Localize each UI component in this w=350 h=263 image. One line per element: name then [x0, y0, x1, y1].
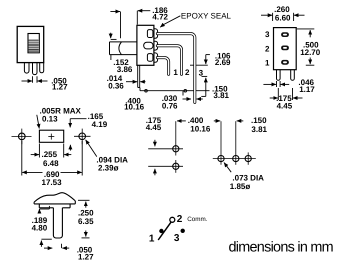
front view slider knob (striped): [29, 39, 39, 52]
pcb hole B1: [218, 156, 224, 162]
svg-text:1.27: 1.27: [78, 253, 94, 262]
mounting hole left: [12, 129, 32, 145]
dimension .250/6.35: [78, 200, 90, 238]
front view slider slot: [28, 34, 39, 53]
crosshair lines for horizontal row: [213, 121, 256, 165]
rear terminal 1: [281, 60, 289, 65]
side view slot 2 (middle oval): [144, 42, 153, 49]
wire pin 1 (from bottom tab): [157, 58, 168, 75]
pcb hole A1 (upper of vertical pair): [173, 146, 179, 152]
rear terminal 2: [281, 46, 289, 51]
svg-text:0.13: 0.13: [42, 115, 58, 124]
svg-text:10.16: 10.16: [190, 125, 211, 134]
svg-text:1: 1: [173, 68, 178, 77]
side view terminal tab 1 (bottom): [154, 53, 158, 62]
dimension line under side view .400/10.16: [140, 88, 210, 92]
side view terminal tab 3 (top): [154, 29, 158, 39]
side view actuator knob: [110, 42, 137, 55]
dimension .152/3.86: [110, 55, 112, 60]
side view slot 3: [147, 30, 153, 38]
crosshair lines for vertical pair: [148, 121, 183, 173]
front view body: [17, 26, 44, 62]
mounting slot: [39, 130, 63, 142]
svg-text:Comm.: Comm.: [187, 216, 208, 223]
dimension .106/2.69: [190, 55, 210, 66]
dimension .165/4.19: [70, 119, 86, 151]
dimension .150/3.81 (side view right): [201, 76, 207, 96]
schematic lever wire: [158, 222, 171, 240]
svg-text:1: 1: [265, 59, 270, 68]
dimension .690/17.53: [22, 141, 82, 176]
rear view pin right: [291, 70, 295, 81]
side view body: [137, 25, 154, 65]
svg-text:2.69: 2.69: [215, 58, 231, 67]
dimension .400/10.16 (hole pattern): [177, 120, 220, 122]
svg-text:4.45: 4.45: [277, 101, 293, 110]
svg-text:3: 3: [174, 233, 180, 244]
pcb hole B3: [245, 156, 251, 162]
schematic contact 3 (filled dot): [181, 229, 185, 233]
svg-text:3: 3: [199, 68, 204, 77]
svg-text:2: 2: [177, 214, 183, 225]
svg-text:3: 3: [265, 30, 270, 39]
svg-text:4.80: 4.80: [32, 223, 48, 232]
dimension .189/4.80: [39, 206, 51, 247]
svg-text:2.39ø: 2.39ø: [98, 163, 119, 172]
side view straight pin below body: [138, 65, 140, 87]
svg-text:12.70: 12.70: [300, 48, 321, 57]
dimension .255/6.48: [31, 144, 72, 158]
front view pin 1: [24, 63, 29, 74]
svg-text:17.53: 17.53: [42, 178, 63, 187]
mounting hole right: [74, 129, 91, 145]
side view slot 1: [147, 54, 153, 62]
svg-text:4.72: 4.72: [152, 13, 168, 22]
svg-text:0.76: 0.76: [162, 101, 178, 110]
svg-text:2: 2: [185, 68, 190, 77]
dimension .186/4.72: [110, 11, 150, 40]
svg-text:6.35: 6.35: [78, 217, 94, 226]
label .094 DIA with leader: [86, 140, 97, 157]
dimension .175/4.45 (rear): [270, 88, 303, 100]
svg-text:.400: .400: [188, 116, 204, 125]
actuator cap top profile: [34, 193, 75, 202]
svg-text:EPOXY SEAL: EPOXY SEAL: [181, 12, 232, 21]
dimension .260/6.60: [261, 13, 305, 21]
dimension .150/3.81 (hole pattern): [237, 120, 244, 122]
dimension .046/1.17: [263, 81, 289, 87]
actuator cap base: [34, 201, 75, 208]
svg-text:3.81: 3.81: [251, 125, 267, 134]
svg-text:0.36: 0.36: [108, 81, 124, 90]
svg-text:6.48: 6.48: [43, 159, 59, 168]
dimension .500/12.70: [297, 29, 315, 65]
svg-text:6.60: 6.60: [275, 13, 291, 22]
side view terminal tab 2 (middle): [154, 41, 158, 50]
dimension .175/4.45 (hole pattern): [154, 140, 156, 176]
wire pin 2 (from middle tab): [157, 46, 181, 74]
rear view pin left: [277, 70, 281, 81]
pcb hole A2 (lower of vertical pair): [173, 163, 179, 169]
svg-text:2: 2: [265, 44, 270, 53]
wire pin 3 (from top tab): [157, 34, 194, 103]
dimension .014/0.36: [126, 81, 146, 83]
svg-text:4.45: 4.45: [146, 123, 162, 132]
schematic switch symbol: common terminal 2 (open circle): [170, 217, 175, 222]
schematic contact 1 (filled dot): [159, 229, 163, 233]
svg-text:1: 1: [149, 234, 155, 245]
dimension .050/1.27 front view pin width: [22, 76, 48, 83]
rear terminal 3: [281, 32, 289, 37]
svg-text:1.27: 1.27: [52, 83, 68, 92]
svg-text:3.86: 3.86: [117, 65, 133, 74]
rear view body: [274, 28, 297, 70]
dimension .030/0.76 (wire width): [183, 91, 203, 99]
svg-text:10.16: 10.16: [124, 103, 145, 112]
actuator stem: [53, 208, 62, 238]
svg-text:4.19: 4.19: [92, 120, 108, 129]
front view pin 2: [33, 63, 38, 75]
pcb hole B2: [233, 156, 239, 162]
svg-text:3.81: 3.81: [213, 91, 229, 100]
front view pin 3: [40, 63, 44, 73]
label .073 DIA with leader: [224, 163, 231, 173]
svg-text:1.17: 1.17: [299, 85, 315, 94]
svg-text:1.85ø: 1.85ø: [230, 182, 251, 191]
dimension .050/1.27 (stem width): [44, 244, 69, 248]
svg-text:dimensions in mm: dimensions in mm: [229, 239, 334, 255]
